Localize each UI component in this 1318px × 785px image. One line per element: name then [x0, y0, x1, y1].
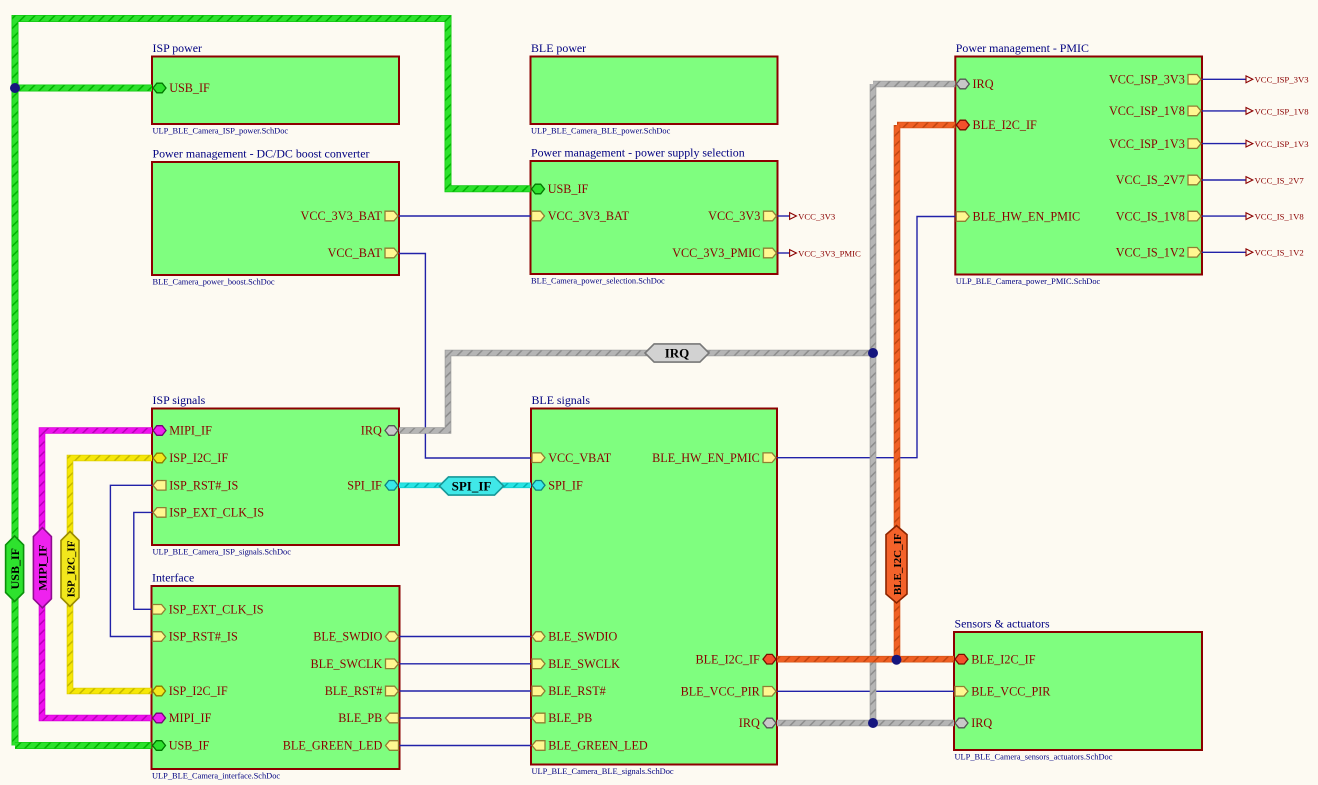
port BLE_SWDIO — [532, 630, 617, 644]
svg-text:BLE_I2C_IF: BLE_I2C_IF — [973, 118, 1038, 132]
svg-text:MIPI_IF: MIPI_IF — [169, 711, 212, 725]
wire stub VCC_3V3 — [778, 215, 790, 217]
svg-text:USB_IF: USB_IF — [548, 182, 589, 196]
port IRQ — [956, 77, 993, 91]
svg-text:USB_IF: USB_IF — [8, 548, 22, 589]
svg-text:VCC_3V3_PMIC: VCC_3V3_PMIC — [798, 248, 861, 258]
svg-text:Power management - DC/DC boost: Power management - DC/DC boost converter — [153, 147, 370, 161]
wire SPI_IF — [399, 482, 531, 488]
svg-text:BLE_Camera_power_selection.Sch: BLE_Camera_power_selection.SchDoc — [531, 277, 665, 286]
svg-text:BLE_SWDIO: BLE_SWDIO — [313, 630, 382, 644]
junction — [892, 655, 902, 665]
svg-text:USB_IF: USB_IF — [169, 739, 210, 753]
sheet symbol Power management - power supply selection — [531, 146, 778, 286]
svg-text:BLE power: BLE power — [531, 41, 586, 55]
sheet symbol Power management - PMIC — [955, 41, 1202, 286]
port BLE_PB — [338, 711, 398, 725]
off-sheet connector VCC_ISP_1V3 — [1246, 139, 1309, 149]
port BLE_PB — [532, 711, 592, 725]
port ISP_RST#_IS — [153, 479, 239, 493]
wire BLE_SWDIO — [400, 636, 532, 638]
svg-text:VCC_3V3: VCC_3V3 — [708, 209, 760, 223]
svg-text:BLE_VCC_PIR: BLE_VCC_PIR — [971, 685, 1051, 699]
off-sheet connector VCC_IS_2V7 — [1246, 175, 1304, 185]
port SPI_IF — [347, 479, 398, 493]
sheet symbol Interface — [152, 571, 400, 781]
off-sheet connector VCC_IS_1V8 — [1246, 212, 1304, 222]
svg-text:IRQ: IRQ — [361, 424, 382, 438]
svg-text:ISP_I2C_IF: ISP_I2C_IF — [169, 684, 228, 698]
svg-text:ISP signals: ISP signals — [153, 393, 206, 407]
svg-text:ISP_I2C_IF: ISP_I2C_IF — [65, 540, 77, 597]
wire stub VCC_IS_1V2 — [1202, 251, 1246, 253]
wire BLE_RST# — [400, 690, 532, 692]
off-sheet connector VCC_ISP_3V3 — [1246, 75, 1309, 85]
net label USB_IF (vertical) — [6, 536, 24, 602]
svg-text:IRQ: IRQ — [665, 346, 690, 361]
svg-text:BLE_I2C_IF: BLE_I2C_IF — [695, 652, 760, 666]
port VCC_ISP_1V3 — [1109, 137, 1201, 151]
wire BLE_I2C_IF bottom — [777, 656, 954, 663]
svg-text:BLE_SWCLK: BLE_SWCLK — [548, 657, 620, 671]
svg-text:Power management - PMIC: Power management - PMIC — [956, 41, 1089, 55]
wire USB_IF to Interface — [15, 742, 152, 749]
sheet symbol BLE power — [531, 41, 778, 136]
svg-text:VCC_IS_1V8: VCC_IS_1V8 — [1255, 212, 1305, 222]
svg-text:SPI_IF: SPI_IF — [347, 479, 382, 493]
svg-text:Sensors & actuators: Sensors & actuators — [955, 617, 1050, 631]
port BLE_I2C_IF — [695, 652, 776, 666]
port BLE_GREEN_LED — [283, 739, 399, 753]
wire BLE_I2C_IF to PMIC — [897, 122, 955, 129]
port ISP_RST#_IS — [153, 630, 239, 644]
sheet symbol ISP signals — [152, 393, 399, 557]
port VCC_3V3 — [708, 209, 776, 223]
wire stub VCC_ISP_1V3 — [1202, 143, 1246, 145]
net label BLE_I2C_IF (vertical) — [886, 526, 907, 603]
svg-text:BLE_I2C_IF: BLE_I2C_IF — [892, 533, 904, 595]
net label MIPI_IF (vertical) — [33, 528, 51, 608]
svg-text:ULP_BLE_Camera_interface.SchDo: ULP_BLE_Camera_interface.SchDoc — [152, 772, 280, 781]
wire VCC_3V3_BAT — [399, 215, 531, 217]
svg-text:VCC_IS_1V2: VCC_IS_1V2 — [1116, 246, 1185, 260]
wire VCC_BAT to VCC_VBAT — [399, 254, 531, 459]
off-sheet connector VCC_3V3 — [790, 211, 836, 221]
sheet symbol ISP power — [152, 41, 399, 136]
svg-text:VCC_3V3_PMIC: VCC_3V3_PMIC — [672, 246, 760, 260]
svg-text:Power management - power suppl: Power management - power supply selectio… — [531, 146, 745, 160]
wire IRQ bottom — [777, 720, 954, 727]
svg-text:SPI_IF: SPI_IF — [548, 479, 583, 493]
net label ISP_I2C_IF (vertical) — [61, 532, 79, 607]
svg-text:BLE_RST#: BLE_RST# — [548, 684, 606, 698]
svg-text:VCC_ISP_3V3: VCC_ISP_3V3 — [1255, 75, 1309, 85]
port VCC_IS_1V8 — [1116, 209, 1201, 223]
wire ISP_RST#_IS — [110, 485, 152, 636]
svg-text:VCC_ISP_1V3: VCC_ISP_1V3 — [1255, 139, 1309, 149]
port ISP_EXT_CLK_IS — [153, 506, 264, 520]
off-sheet connector VCC_3V3_PMIC — [790, 248, 861, 258]
svg-text:Interface: Interface — [152, 571, 194, 585]
svg-text:ULP_BLE_Camera_ISP_power.SchDo: ULP_BLE_Camera_ISP_power.SchDoc — [153, 127, 289, 136]
port MIPI_IF — [153, 424, 212, 438]
svg-text:ULP_BLE_Camera_power_PMIC.SchD: ULP_BLE_Camera_power_PMIC.SchDoc — [956, 277, 1101, 286]
svg-text:VCC_ISP_1V8: VCC_ISP_1V8 — [1255, 106, 1310, 116]
port IRQ — [361, 424, 398, 438]
svg-text:VCC_BAT: VCC_BAT — [328, 246, 383, 260]
port BLE_SWDIO — [313, 630, 398, 644]
port IRQ — [739, 716, 776, 730]
wire USB_IF trunk — [15, 19, 531, 746]
svg-text:VCC_3V3: VCC_3V3 — [798, 211, 835, 221]
wire BLE_SWCLK — [400, 663, 532, 665]
svg-text:BLE_PB: BLE_PB — [338, 711, 382, 725]
port VCC_3V3_PMIC — [672, 246, 776, 260]
port VCC_VBAT — [532, 451, 612, 465]
port BLE_RST# — [532, 684, 606, 698]
svg-text:ULP_BLE_Camera_ISP_signals.Sch: ULP_BLE_Camera_ISP_signals.SchDoc — [153, 548, 292, 557]
svg-text:VCC_ISP_1V8: VCC_ISP_1V8 — [1109, 104, 1185, 118]
port BLE_VCC_PIR — [681, 685, 776, 699]
svg-text:USB_IF: USB_IF — [169, 81, 210, 95]
svg-text:MIPI_IF: MIPI_IF — [169, 424, 212, 438]
port USB_IF — [532, 182, 589, 196]
svg-text:ISP_RST#_IS: ISP_RST#_IS — [169, 630, 238, 644]
port BLE_I2C_IF — [955, 652, 1036, 666]
wire IRQ to PMIC — [873, 81, 955, 88]
svg-text:BLE_VCC_PIR: BLE_VCC_PIR — [681, 685, 761, 699]
svg-text:MIPI_IF: MIPI_IF — [36, 545, 50, 591]
svg-text:ULP_BLE_Camera_BLE_power.SchDo: ULP_BLE_Camera_BLE_power.SchDoc — [531, 127, 671, 136]
wire stub VCC_ISP_3V3 — [1202, 78, 1246, 80]
off-sheet connector VCC_ISP_1V8 — [1246, 106, 1309, 116]
svg-text:VCC_ISP_1V3: VCC_ISP_1V3 — [1109, 137, 1185, 151]
svg-text:BLE_RST#: BLE_RST# — [325, 684, 383, 698]
sheet symbol Power management - DC/DC boost converter — [152, 147, 399, 287]
port ISP_I2C_IF — [153, 451, 228, 465]
port VCC_3V3_BAT — [532, 209, 630, 223]
svg-text:ULP_BLE_Camera_sensors_actuato: ULP_BLE_Camera_sensors_actuators.SchDoc — [955, 753, 1113, 762]
svg-text:ISP power: ISP power — [153, 41, 202, 55]
sheet symbol BLE signals — [531, 393, 777, 776]
port ISP_EXT_CLK_IS — [153, 603, 264, 617]
svg-text:BLE_HW_EN_PMIC: BLE_HW_EN_PMIC — [973, 210, 1081, 224]
svg-text:VCC_IS_1V8: VCC_IS_1V8 — [1116, 209, 1185, 223]
svg-text:ISP_I2C_IF: ISP_I2C_IF — [169, 451, 228, 465]
port VCC_IS_2V7 — [1116, 173, 1201, 187]
port USB_IF — [153, 739, 210, 753]
svg-text:SPI_IF: SPI_IF — [452, 479, 492, 494]
svg-text:BLE_GREEN_LED: BLE_GREEN_LED — [283, 739, 383, 753]
svg-text:BLE_PB: BLE_PB — [548, 711, 592, 725]
port BLE_SWCLK — [532, 657, 620, 671]
svg-text:VCC_ISP_3V3: VCC_ISP_3V3 — [1109, 73, 1185, 87]
port ISP_I2C_IF — [153, 684, 228, 698]
junction — [868, 348, 878, 358]
wire BLE_VCC_PIR — [777, 690, 954, 692]
svg-text:BLE_SWDIO: BLE_SWDIO — [548, 630, 617, 644]
svg-text:VCC_IS_2V7: VCC_IS_2V7 — [1255, 175, 1305, 185]
svg-text:VCC_3V3_BAT: VCC_3V3_BAT — [548, 209, 630, 223]
port USB_IF — [153, 81, 210, 95]
port BLE_GREEN_LED — [532, 739, 648, 753]
port MIPI_IF — [153, 711, 212, 725]
port BLE_I2C_IF — [956, 118, 1037, 132]
wire BLE_HW_EN_PMIC — [777, 217, 955, 458]
wire BLE_GREEN_LED — [400, 745, 532, 747]
net label IRQ — [645, 344, 709, 362]
port BLE_RST# — [325, 684, 399, 698]
wire stub VCC_IS_2V7 — [1202, 179, 1246, 181]
wire ISP_EXT_CLK_IS — [134, 512, 152, 609]
wire MIPI_IF — [42, 431, 152, 719]
svg-text:BLE_I2C_IF: BLE_I2C_IF — [971, 652, 1036, 666]
net label SPI_IF — [439, 477, 503, 495]
port IRQ — [955, 716, 992, 730]
off-sheet connector VCC_IS_1V2 — [1246, 248, 1304, 258]
svg-text:ISP_RST#_IS: ISP_RST#_IS — [169, 479, 238, 493]
port BLE_SWCLK — [311, 657, 399, 671]
svg-text:VCC_IS_2V7: VCC_IS_2V7 — [1116, 173, 1185, 187]
port VCC_3V3_BAT — [301, 209, 398, 223]
wire ISP_I2C_IF — [70, 458, 152, 691]
svg-text:IRQ: IRQ — [739, 716, 760, 730]
port VCC_ISP_1V8 — [1109, 104, 1201, 118]
wire IRQ from ISP signals — [399, 353, 873, 431]
svg-text:BLE_Camera_power_boost.SchDoc: BLE_Camera_power_boost.SchDoc — [153, 278, 275, 287]
port VCC_IS_1V2 — [1116, 246, 1201, 260]
svg-text:VCC_VBAT: VCC_VBAT — [548, 451, 612, 465]
svg-text:IRQ: IRQ — [973, 77, 994, 91]
wire BLE_I2C_IF vertical — [894, 125, 901, 659]
port BLE_HW_EN_PMIC — [652, 451, 776, 465]
svg-text:ULP_BLE_Camera_BLE_signals.Sch: ULP_BLE_Camera_BLE_signals.SchDoc — [532, 767, 674, 776]
svg-text:IRQ: IRQ — [971, 716, 992, 730]
port SPI_IF — [532, 479, 583, 493]
svg-text:ISP_EXT_CLK_IS: ISP_EXT_CLK_IS — [169, 506, 264, 520]
port BLE_HW_EN_PMIC — [956, 210, 1080, 224]
svg-text:VCC_3V3_BAT: VCC_3V3_BAT — [301, 209, 383, 223]
junction — [868, 718, 878, 728]
wire IRQ vertical — [870, 84, 877, 723]
svg-text:BLE_SWCLK: BLE_SWCLK — [311, 657, 383, 671]
svg-text:VCC_IS_1V2: VCC_IS_1V2 — [1255, 248, 1304, 258]
sheet symbol Sensors &amp; actuators — [954, 617, 1202, 762]
wire BLE_PB — [400, 717, 532, 719]
port BLE_VCC_PIR — [955, 685, 1051, 699]
wire stub VCC_IS_1V8 — [1202, 215, 1246, 217]
wire stub VCC_3V3_PMIC — [778, 252, 790, 254]
svg-text:BLE signals: BLE signals — [532, 393, 591, 407]
port VCC_ISP_3V3 — [1109, 73, 1201, 87]
wire USB_IF to ISP power — [15, 85, 152, 92]
svg-text:BLE_GREEN_LED: BLE_GREEN_LED — [548, 739, 648, 753]
wire stub VCC_ISP_1V8 — [1202, 110, 1246, 112]
svg-text:BLE_HW_EN_PMIC: BLE_HW_EN_PMIC — [652, 451, 760, 465]
svg-text:ISP_EXT_CLK_IS: ISP_EXT_CLK_IS — [169, 603, 264, 617]
junction — [10, 83, 20, 93]
port VCC_BAT — [328, 246, 398, 260]
